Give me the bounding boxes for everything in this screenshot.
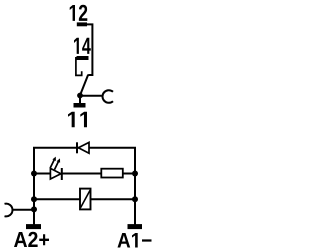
- label 12: [70, 5, 88, 21]
- NO contact hook 14: [76, 57, 82, 75]
- right rail to A1: [134, 199, 136, 225]
- left rail to A2: [33, 199, 35, 225]
- top rail of coil box: [34, 148, 135, 200]
- freewheeling diode D1 (cathode left): [76, 142, 78, 153]
- contact lever (changeover): [80, 75, 88, 96]
- wire from 12 to NC contact: [87, 23, 92, 75]
- node: common junction 11: [77, 93, 83, 99]
- node dot socket branch: [31, 206, 37, 212]
- coil row wire: [34, 198, 135, 200]
- label A1-: [118, 233, 152, 248]
- terminal bar A1: [128, 224, 143, 229]
- wire to plug socket: [80, 95, 102, 97]
- resistor R1: [101, 169, 123, 178]
- plug socket A2 (left-open arc): [5, 204, 13, 217]
- LED (triangle right): [50, 168, 61, 179]
- node dot coil row left: [31, 196, 37, 202]
- terminal bar 11: [74, 103, 86, 108]
- node dot coil row right: [132, 196, 138, 202]
- terminal bar 14: [77, 56, 89, 60]
- node dot resistor row right: [132, 171, 138, 177]
- wire to left plug socket: [12, 209, 34, 211]
- node dot LED row left: [31, 171, 37, 177]
- plug socket (right-open arc): [103, 90, 113, 103]
- terminal bar A2: [26, 224, 41, 229]
- terminal bar 12: [77, 22, 87, 26]
- LED row wire: [34, 173, 135, 175]
- label 11: [68, 112, 87, 128]
- wire down to terminal 11: [79, 96, 81, 104]
- label A2+: [14, 232, 49, 247]
- relay coil K1: [80, 189, 91, 210]
- LED emission arrows: [50, 160, 58, 170]
- label 14: [74, 38, 91, 54]
